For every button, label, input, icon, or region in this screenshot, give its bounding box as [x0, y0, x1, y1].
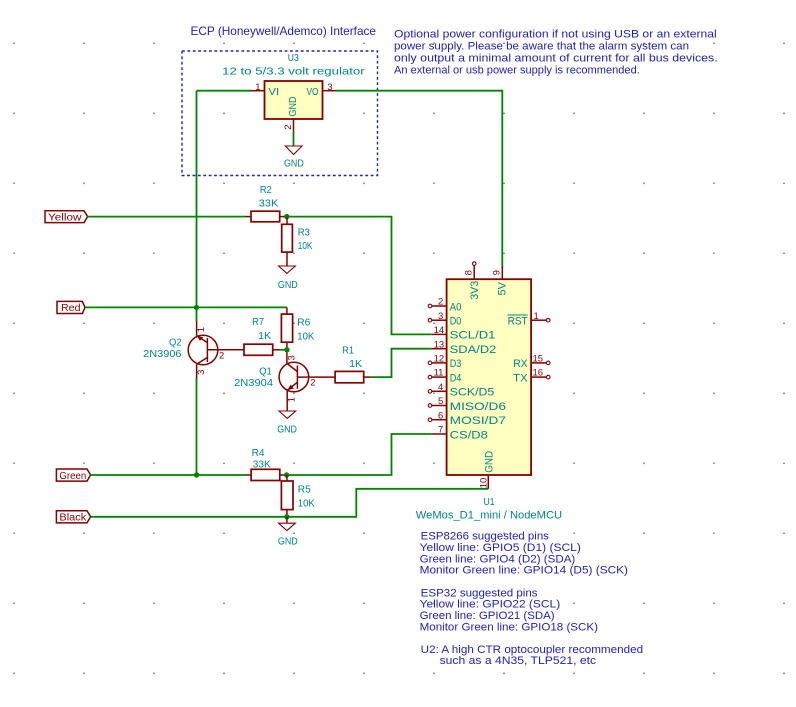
- wire Red to R6: [85, 306, 287, 308]
- wire R1 to SDA node: [371, 349, 432, 377]
- svg-text:16: 16: [533, 368, 544, 379]
- svg-text:1: 1: [534, 311, 539, 322]
- U1 pin 1 RST: [508, 311, 550, 328]
- svg-text:8: 8: [463, 270, 474, 275]
- svg-text:only output a minimal amount o: only output a minimal amount of current …: [394, 53, 718, 65]
- wire bus Q2 collector to Green row: [196, 379, 198, 476]
- svg-text:U2: A high CTR optocoupler rec: U2: A high CTR optocoupler recommended: [421, 644, 643, 656]
- svg-text:33K: 33K: [253, 459, 271, 471]
- svg-text:1K: 1K: [258, 330, 271, 342]
- svg-text:3V3: 3V3: [469, 281, 481, 300]
- svg-text:U1: U1: [484, 496, 495, 508]
- svg-text:VI: VI: [268, 86, 279, 98]
- svg-text:D0: D0: [450, 316, 462, 328]
- wire VI input from vertical bus: [197, 90, 252, 92]
- Q2 pin 1 emitter: [196, 321, 198, 336]
- op-amp U3 regulator body: [265, 81, 323, 119]
- Q1 pin 3 base: [286, 353, 288, 364]
- U1 pin 15 RX: [513, 354, 550, 371]
- svg-text:13: 13: [434, 339, 445, 350]
- resistor R4: [246, 474, 252, 476]
- ground symbol R3: [279, 266, 296, 273]
- svg-text:R3: R3: [298, 226, 310, 238]
- U1 pin 9 5V top: [491, 267, 508, 296]
- svg-text:ECP (Honeywell/Ademco) Interfa: ECP (Honeywell/Ademco) Interface: [191, 24, 377, 38]
- note text ESP8266 pins: [420, 531, 628, 577]
- svg-text:3: 3: [327, 82, 332, 93]
- svg-text:SDA/D2: SDA/D2: [450, 344, 497, 356]
- svg-text:D3: D3: [450, 358, 462, 370]
- svg-text:Monitor Green line: GPIO18 (SC: Monitor Green line: GPIO18 (SCK): [420, 621, 598, 633]
- svg-text:ESP32 suggested pins: ESP32 suggested pins: [421, 587, 538, 599]
- svg-text:3: 3: [438, 311, 443, 322]
- svg-text:Q1: Q1: [259, 365, 272, 377]
- svg-text:1: 1: [255, 82, 260, 93]
- wire U3 pin2 to ground: [293, 132, 295, 147]
- junction Red/bus: [194, 305, 199, 310]
- svg-text:1K: 1K: [349, 358, 362, 370]
- U1 pin 4 SCK/D5: [428, 382, 494, 399]
- svg-text:An external or usb power suppl: An external or usb power supply is recom…: [394, 65, 640, 77]
- svg-text:Black: Black: [59, 513, 87, 524]
- resistor R2: [246, 216, 252, 218]
- svg-text:U3: U3: [288, 52, 299, 64]
- U1 pin 5 MISO/D6: [428, 396, 506, 413]
- svg-text:6: 6: [438, 410, 443, 421]
- resistor R5: [286, 475, 288, 481]
- Q1 pin 1 emitter: [286, 390, 288, 411]
- svg-text:GND: GND: [287, 96, 299, 116]
- svg-text:Yellow line: GPIO22 (SCL): Yellow line: GPIO22 (SCL): [420, 599, 561, 611]
- svg-text:4: 4: [438, 382, 443, 393]
- U1 pin 11 D4: [428, 368, 461, 385]
- wire Green to R4: [91, 474, 246, 476]
- svg-text:10K: 10K: [297, 331, 314, 343]
- svg-text:2: 2: [438, 297, 443, 308]
- svg-text:14: 14: [434, 325, 445, 336]
- U1 pin 3 D0: [428, 311, 461, 328]
- pin 3 VO: [323, 90, 336, 92]
- pin 1 VI: [251, 90, 265, 92]
- Q1 pin 2 collector: [297, 376, 335, 378]
- wire Yellow to R2: [88, 216, 246, 218]
- svg-text:3: 3: [287, 355, 298, 360]
- U1 pin 16 TX: [513, 368, 550, 385]
- svg-text:7: 7: [438, 425, 443, 436]
- svg-text:Yellow line: GPIO5 (D1) (SCL): Yellow line: GPIO5 (D1) (SCL): [420, 542, 581, 554]
- svg-text:11: 11: [434, 368, 444, 379]
- wire R7 to junction: [281, 349, 287, 351]
- U1 pin 7 CS/D8: [432, 425, 488, 442]
- svg-text:2N3904: 2N3904: [234, 377, 273, 389]
- note text optional power paragraph: [394, 29, 718, 77]
- transistor Q2: [188, 321, 244, 379]
- svg-text:10K: 10K: [298, 498, 315, 510]
- svg-text:power supply. Please be aware: power supply. Please be aware that the a…: [394, 41, 689, 53]
- svg-text:ESP8266 suggested pins: ESP8266 suggested pins: [421, 531, 550, 543]
- svg-text:2: 2: [283, 124, 294, 129]
- svg-text:9: 9: [491, 270, 502, 275]
- svg-text:5V: 5V: [496, 281, 508, 295]
- svg-text:GND: GND: [278, 536, 298, 548]
- svg-text:Green line: GPIO4 (D2) (SDA): Green line: GPIO4 (D2) (SDA): [420, 553, 576, 565]
- note text U2 optocoupler: [421, 644, 643, 667]
- svg-text:VO: VO: [307, 86, 319, 98]
- junction R5/Black: [284, 514, 289, 519]
- U1 pin 6 MOSI/D7: [428, 410, 506, 427]
- U1 pin 10 GND bottom: [479, 451, 496, 489]
- svg-text:GND: GND: [277, 423, 297, 435]
- svg-text:GND: GND: [483, 451, 495, 473]
- global label Yellow: [45, 211, 88, 223]
- svg-text:2: 2: [310, 378, 315, 389]
- svg-text:33K: 33K: [259, 198, 279, 210]
- svg-text:SCK/D5: SCK/D5: [450, 387, 495, 399]
- svg-text:D4: D4: [450, 372, 462, 384]
- ground symbol U3: [285, 146, 302, 155]
- junction R6/R7/Q1 base: [284, 347, 289, 352]
- svg-text:5: 5: [438, 396, 443, 407]
- svg-text:Yellow: Yellow: [48, 212, 82, 223]
- svg-text:MOSI/D7: MOSI/D7: [450, 415, 506, 427]
- svg-text:2N3906: 2N3906: [143, 348, 181, 360]
- ground symbol Q1: [279, 411, 296, 418]
- dashed outline box ECP section: [182, 51, 378, 176]
- svg-text:RST: RST: [508, 316, 528, 328]
- svg-text:10K: 10K: [298, 240, 313, 252]
- resistor R3: [286, 217, 288, 224]
- svg-text:GND: GND: [278, 279, 298, 291]
- junction R4/R5: [284, 472, 289, 477]
- svg-text:MISO/D6: MISO/D6: [450, 401, 506, 413]
- svg-text:R6: R6: [297, 316, 310, 328]
- U1 pin 12 D3: [428, 354, 461, 371]
- svg-text:SCL/D1: SCL/D1: [450, 330, 496, 342]
- svg-text:15: 15: [533, 354, 544, 365]
- svg-text:10: 10: [479, 478, 490, 489]
- svg-text:Optional power configuration i: Optional power configuration if not usin…: [394, 29, 717, 41]
- note text ESP32 pins: [420, 587, 598, 633]
- svg-text:1: 1: [196, 327, 207, 332]
- global label Red: [57, 301, 85, 313]
- svg-text:such as a 4N35, TLP521, etc: such as a 4N35, TLP521, etc: [440, 655, 597, 667]
- wire vertical bus 12V left: [196, 91, 198, 321]
- resistor R7: [209, 349, 244, 351]
- svg-text:3: 3: [196, 370, 207, 375]
- Q2 pin 2 base: [207, 349, 244, 351]
- svg-text:TX: TX: [513, 372, 528, 384]
- transistor Q1: [279, 353, 335, 412]
- Q2 pin 3 collector: [196, 364, 198, 378]
- wire R2 to SCL node: [287, 217, 432, 335]
- IC U1 body: [447, 279, 531, 475]
- U1 pin 13 SDA/D2: [432, 339, 497, 356]
- svg-text:Green line: GPIO21 (SDA): Green line: GPIO21 (SDA): [420, 610, 555, 622]
- global label Green: [56, 469, 90, 481]
- svg-text:Monitor Green line: GPIO14 (D5: Monitor Green line: GPIO14 (D5) (SCK): [420, 565, 628, 577]
- global label Black: [56, 511, 90, 523]
- svg-text:12 to 5/3.3 volt regulator: 12 to 5/3.3 volt regulator: [222, 65, 365, 77]
- svg-text:A0: A0: [450, 301, 462, 313]
- svg-text:2: 2: [219, 350, 224, 361]
- junction Green/bus: [194, 472, 199, 477]
- svg-text:Q2: Q2: [169, 336, 182, 348]
- wire Black to U1 GND: [91, 489, 489, 517]
- svg-text:Red: Red: [61, 303, 81, 314]
- svg-text:R1: R1: [342, 344, 354, 356]
- wire R4 to CS node: [287, 434, 432, 475]
- U1 pin 8 3V3 top: [463, 262, 481, 300]
- svg-text:RX: RX: [513, 358, 528, 370]
- svg-text:R5: R5: [298, 484, 311, 496]
- junction Yellow/R2/R3: [284, 214, 289, 219]
- svg-text:GND: GND: [284, 157, 304, 169]
- svg-text:WeMos_D1_mini / NodeMCU: WeMos_D1_mini / NodeMCU: [416, 509, 562, 521]
- svg-text:12: 12: [434, 354, 445, 365]
- resistor R6: [286, 307, 288, 314]
- U1 pin 2 A0: [428, 297, 461, 314]
- ground symbol R5: [279, 523, 296, 530]
- svg-text:CS/D8: CS/D8: [450, 429, 488, 441]
- svg-text:R4: R4: [252, 447, 265, 459]
- svg-text:R2: R2: [260, 184, 272, 196]
- resistor R1: [335, 371, 364, 382]
- wire VO output to U1 5V pin: [336, 91, 503, 268]
- svg-text:1: 1: [287, 397, 298, 402]
- svg-text:Green: Green: [59, 471, 86, 482]
- svg-text:R7: R7: [252, 316, 264, 328]
- U1 pin 14 SCL/D1: [432, 325, 496, 342]
- pin 2 GND U3: [293, 119, 295, 132]
